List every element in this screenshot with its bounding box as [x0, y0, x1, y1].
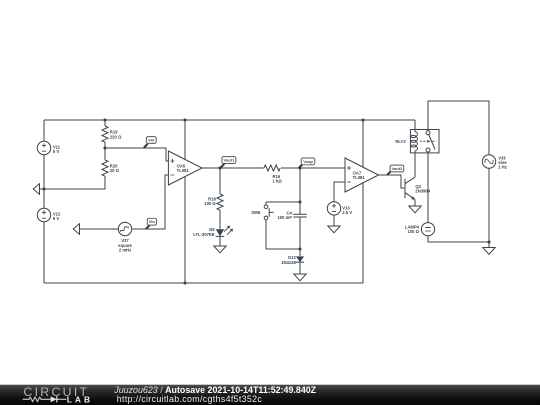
- svg-text:Vout1: Vout1: [223, 158, 235, 163]
- svg-text:Vout2: Vout2: [391, 166, 403, 171]
- svg-text:220 Ω: 220 Ω: [110, 134, 122, 139]
- svg-text:20 Ω: 20 Ω: [110, 168, 120, 173]
- svg-text:Vin: Vin: [149, 219, 156, 224]
- svg-text:100 mF: 100 mF: [277, 215, 292, 220]
- svg-text:2N3904: 2N3904: [415, 189, 430, 194]
- svg-text:1 kΩ: 1 kΩ: [273, 179, 283, 184]
- svg-text:100 Ω: 100 Ω: [204, 201, 216, 206]
- svg-text:LAB: LAB: [67, 394, 93, 404]
- svg-text:TL081: TL081: [353, 175, 366, 180]
- svg-text:TL081: TL081: [177, 168, 190, 173]
- svg-text:5 V: 5 V: [53, 149, 59, 154]
- svg-text:2 mHz: 2 mHz: [119, 248, 131, 253]
- svg-text:5 V: 5 V: [53, 216, 59, 221]
- svg-text:2.5 V: 2.5 V: [342, 210, 352, 215]
- svg-text:http://circuitlab.com/cgths4f5: http://circuitlab.com/cgths4f5t352c: [117, 394, 263, 404]
- svg-text:1 Hz: 1 Hz: [498, 165, 507, 170]
- svg-text:SW6: SW6: [251, 210, 261, 215]
- svg-text:1N4148: 1N4148: [281, 260, 296, 265]
- svg-text:100 Ω: 100 Ω: [407, 229, 419, 234]
- svg-text:LTL-307EE: LTL-307EE: [193, 232, 215, 237]
- svg-text:Vcap: Vcap: [303, 159, 313, 164]
- svg-text:RLY2: RLY2: [395, 139, 406, 144]
- svg-text:Vni: Vni: [148, 138, 154, 143]
